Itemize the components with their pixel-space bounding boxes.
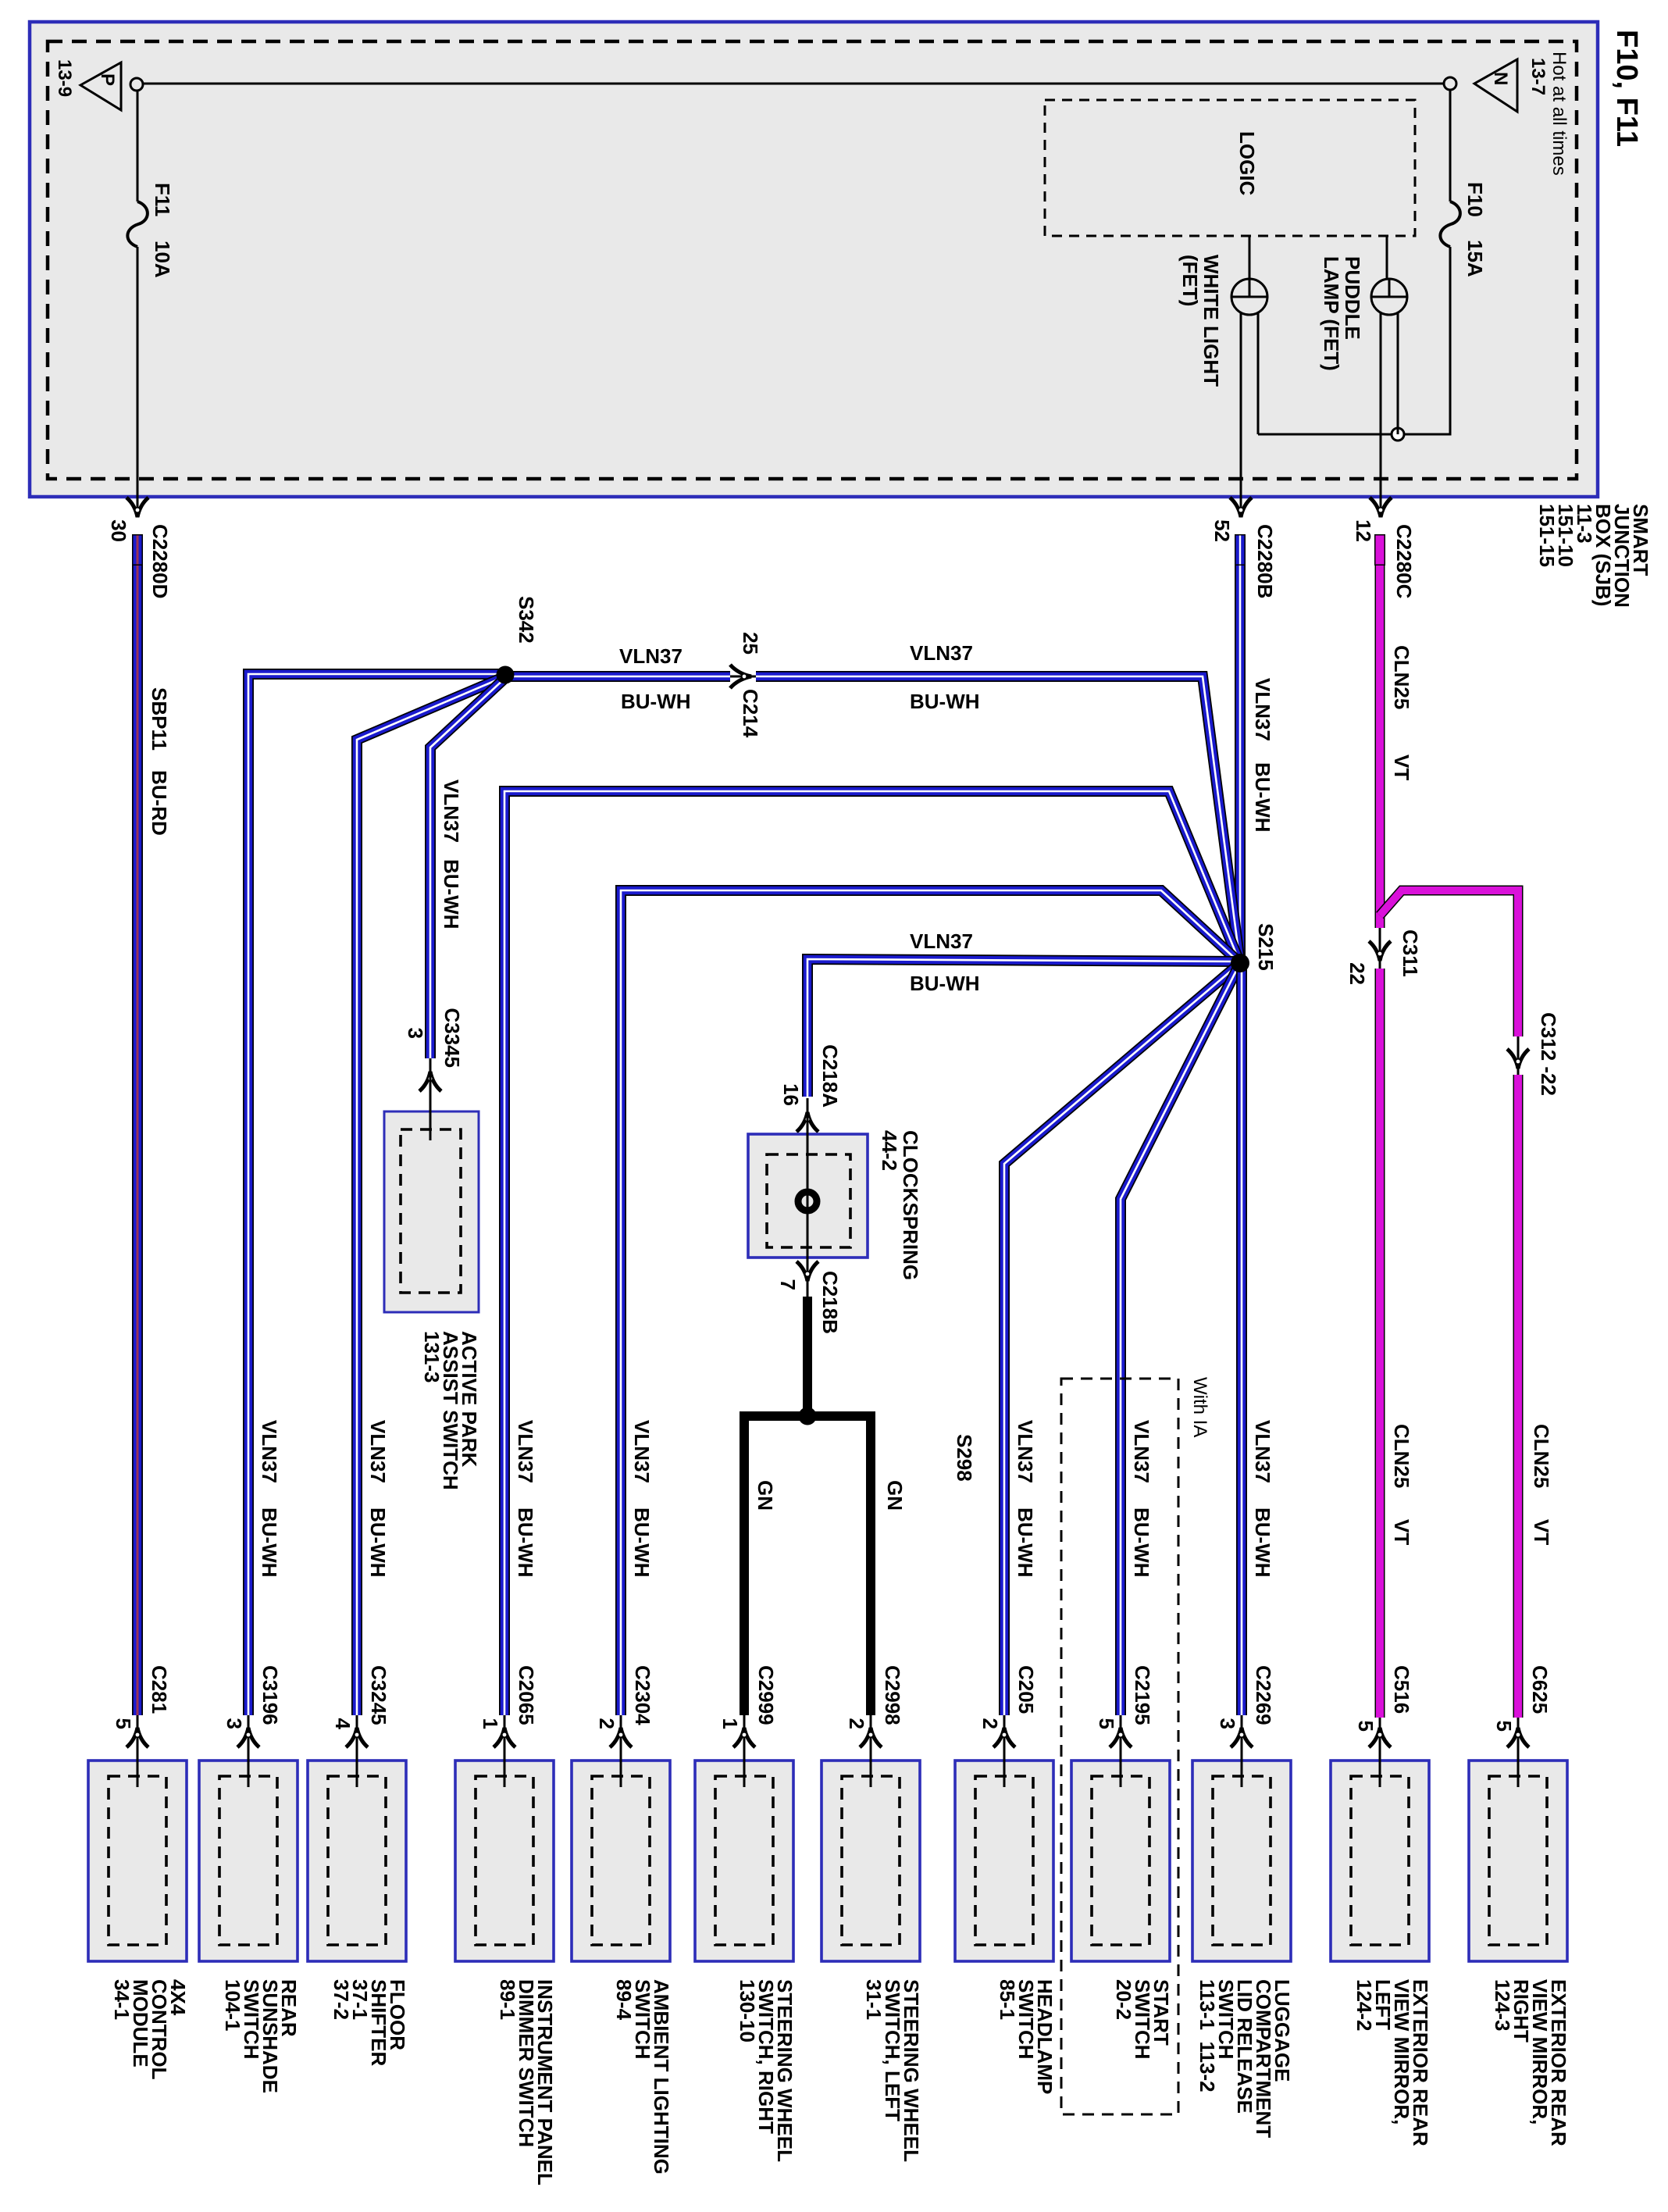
svg-text:VLN37: VLN37 <box>1014 1420 1037 1483</box>
connector arrow C3196 <box>237 1728 259 1747</box>
connector arrow C3245 <box>346 1728 368 1747</box>
svg-text:16: 16 <box>779 1083 803 1106</box>
wire into component LUGGAGE COMPARTMENT LID RELEASE SWITCH <box>1241 1715 1243 1787</box>
wire into component REAR SUNSHADE SWITCH <box>248 1715 250 1787</box>
wire GN S298 to C2998 <box>807 1416 871 1715</box>
svg-text:89-4: 89-4 <box>612 1979 636 2021</box>
wire into component START SWITCH <box>1120 1715 1122 1787</box>
svg-text:C214: C214 <box>739 689 762 738</box>
power triangle P <box>80 62 121 110</box>
svg-text:C3245: C3245 <box>367 1665 390 1725</box>
component START SWITCH <box>1071 1761 1170 1961</box>
svg-text:C3345: C3345 <box>440 1008 464 1068</box>
svg-text:PUDDLE: PUDDLE <box>1341 256 1364 340</box>
svg-text:C2280C: C2280C <box>1392 524 1416 599</box>
svg-text:C2280B: C2280B <box>1253 524 1277 598</box>
svg-text:34-1: 34-1 <box>110 1979 134 2020</box>
connector C2280B bar <box>1235 534 1246 565</box>
wire VLN37 S215 to C2269 <box>1236 963 1247 1715</box>
svg-text:10A: 10A <box>151 241 174 278</box>
svg-text:3: 3 <box>404 1028 427 1039</box>
svg-text:20-2: 20-2 <box>1112 1979 1135 2020</box>
svg-text:BU-WH: BU-WH <box>258 1507 281 1578</box>
svg-text:4: 4 <box>331 1718 355 1730</box>
wire into component EXTERIOR REAR VIEW MIRROR RIGHT <box>1517 1718 1520 1787</box>
wire VLN37 S215 to C2304 <box>621 890 1240 1715</box>
connector arrow C205 <box>993 1728 1015 1747</box>
svg-text:F10: F10 <box>1463 182 1487 217</box>
svg-text:44-2: 44-2 <box>878 1130 901 1171</box>
svg-text:With IA: With IA <box>1189 1377 1210 1437</box>
wire GN C218B to S298 <box>803 1297 812 1416</box>
wire VLN37 S215 to C218A <box>807 959 1240 1097</box>
svg-text:BU-RD: BU-RD <box>148 770 171 836</box>
svg-text:WHITE LIGHT: WHITE LIGHT <box>1199 255 1223 387</box>
svg-text:37-2: 37-2 <box>330 1979 353 2020</box>
SJB inner dashed border <box>48 41 1577 479</box>
svg-text:VLN37: VLN37 <box>630 1420 654 1483</box>
wire fuse F10 to lamp supply bus <box>1258 247 1450 434</box>
svg-text:104-1: 104-1 <box>221 1979 244 2032</box>
wire into component HEADLAMP SWITCH <box>1003 1715 1006 1787</box>
wire VLN37 S342 to C3345 <box>430 678 505 1058</box>
svg-text:VLN37: VLN37 <box>1251 678 1274 741</box>
connector arrow C2998 <box>860 1728 882 1747</box>
wire GN S298 to C2999 <box>744 1416 807 1715</box>
svg-text:GN: GN <box>754 1480 777 1511</box>
CLOCKSPRING box <box>748 1134 868 1258</box>
wire VLN37 pin52 to S215 <box>1235 565 1246 963</box>
svg-text:(FET): (FET) <box>1178 255 1202 306</box>
svg-text:124-3: 124-3 <box>1491 1979 1514 2032</box>
svg-text:VT: VT <box>1390 1519 1413 1545</box>
svg-text:C2999: C2999 <box>754 1665 778 1725</box>
connector arrow C218A <box>797 1112 818 1132</box>
connector C2280D bar <box>132 534 143 565</box>
svg-text:5: 5 <box>112 1718 135 1729</box>
connector arrow C2195 <box>1110 1728 1132 1747</box>
wire into component EXTERIOR REAR VIEW MIRROR LEFT <box>1379 1718 1381 1787</box>
svg-text:C2195: C2195 <box>1131 1665 1154 1725</box>
LOGIC dashed box <box>1045 100 1415 236</box>
svg-text:3: 3 <box>223 1718 246 1729</box>
svg-text:C3196: C3196 <box>258 1665 282 1725</box>
svg-text:C2304: C2304 <box>631 1665 654 1725</box>
svg-text:N: N <box>1490 72 1511 85</box>
wire white light supply stub <box>1257 312 1260 434</box>
svg-text:VLN37: VLN37 <box>1251 1420 1274 1483</box>
component STEERING WHEEL SWITCH RIGHT <box>695 1761 793 1961</box>
wire stem through C311 gap <box>1379 928 1381 969</box>
svg-text:VLN37: VLN37 <box>258 1420 281 1483</box>
wire SBP11 BU-RD pin30 to C281 <box>132 565 143 1715</box>
component LUGGAGE COMPARTMENT LID RELEASE SWITCH <box>1192 1761 1291 1961</box>
component INSTRUMENT PANEL DIMMER SWITCH <box>455 1761 554 1961</box>
svg-text:C312 -22: C312 -22 <box>1537 1012 1560 1096</box>
svg-text:BU-WH: BU-WH <box>1251 762 1274 833</box>
svg-text:31-1: 31-1 <box>862 1979 886 2020</box>
svg-text:BU-WH: BU-WH <box>1130 1507 1153 1578</box>
component EXTERIOR REAR VIEW MIRROR RIGHT <box>1469 1761 1567 1961</box>
connector arrow C312 <box>1507 1049 1529 1069</box>
With IA dashed option box <box>1061 1379 1178 2114</box>
svg-text:130-10: 130-10 <box>736 1979 759 2043</box>
svg-text:BU-WH: BU-WH <box>910 972 980 995</box>
svg-text:52: 52 <box>1210 519 1234 542</box>
svg-text:BU-WH: BU-WH <box>514 1507 537 1578</box>
wire into component INSTRUMENT PANEL DIMMER SWITCH <box>504 1715 506 1787</box>
wire stem through C312 gap <box>1517 1036 1520 1075</box>
wire into component AMBIENT LIGHTING SWITCH <box>620 1715 622 1787</box>
svg-text:VLN37: VLN37 <box>619 644 683 668</box>
svg-text:C2065: C2065 <box>515 1665 538 1725</box>
wire VLN37 S342 to C3196 <box>248 674 505 1715</box>
connector arrow C2999 <box>733 1728 755 1747</box>
svg-text:S298: S298 <box>953 1434 976 1482</box>
svg-text:CLN25: CLN25 <box>1390 1424 1413 1488</box>
wire LOGIC to white light lamp <box>1249 236 1251 298</box>
svg-text:CLN25: CLN25 <box>1530 1424 1553 1488</box>
junction S342 <box>497 666 515 684</box>
svg-text:C218B: C218B <box>818 1271 842 1334</box>
svg-text:C2269: C2269 <box>1252 1665 1275 1725</box>
fuse F10 15A <box>1440 202 1460 247</box>
svg-text:BU-WH: BU-WH <box>1014 1507 1037 1578</box>
wire VLN37 S342 to C214 <box>505 671 730 682</box>
svg-text:2: 2 <box>845 1718 868 1729</box>
wire VLN37 S215 to C2065 <box>504 791 1240 1715</box>
component REAR SUNSHADE SWITCH <box>199 1761 298 1961</box>
connector arrow C2065 <box>494 1728 515 1747</box>
svg-text:85-1: 85-1 <box>996 1979 1019 2020</box>
wire LOGIC to puddle lamp <box>1386 236 1388 298</box>
connector arrow C2280B <box>1230 498 1252 517</box>
svg-text:C281: C281 <box>148 1665 171 1714</box>
wire CLN25 VT C312 to C625 <box>1513 1075 1524 1718</box>
wire into component STEERING WHEEL SWITCH RIGHT <box>743 1715 746 1787</box>
ACTIVE PARK ASSIST SWITCH box <box>384 1111 479 1312</box>
svg-text:SBP11: SBP11 <box>148 687 171 751</box>
svg-text:BU-WH: BU-WH <box>910 690 980 713</box>
svg-text:F10, F11: F10, F11 <box>1610 30 1643 147</box>
svg-text:1: 1 <box>479 1718 502 1729</box>
wire through clockspring <box>807 1098 809 1297</box>
svg-text:3: 3 <box>1216 1718 1239 1729</box>
svg-text:30: 30 <box>107 519 130 542</box>
component AMBIENT LIGHTING SWITCH <box>572 1761 670 1961</box>
wire CLN25 VT branch to C312 <box>1380 890 1518 1036</box>
wire N circle to fuse F10 <box>1449 90 1452 202</box>
wire VLN37 S215 to C205 <box>1004 963 1240 1715</box>
wire puddle lamp supply stub <box>1397 312 1399 434</box>
svg-text:1: 1 <box>718 1718 742 1729</box>
junction S215 <box>1231 954 1249 972</box>
wire P circle to fuse F11 <box>137 90 139 202</box>
connector arrow C281 <box>127 1728 148 1747</box>
junction circle at P triangle <box>130 78 143 91</box>
svg-text:BU-WH: BU-WH <box>440 859 463 929</box>
svg-text:BU-WH: BU-WH <box>366 1507 390 1578</box>
connector arrow C2304 <box>610 1728 632 1747</box>
wire puddle lamp output to pin 12 <box>1380 312 1382 509</box>
svg-text:C311: C311 <box>1399 929 1422 977</box>
svg-text:22: 22 <box>1345 962 1369 985</box>
svg-text:F11: F11 <box>151 183 174 216</box>
svg-text:5: 5 <box>1354 1721 1378 1732</box>
wire into component STEERING WHEEL SWITCH LEFT <box>870 1715 872 1787</box>
power triangle N <box>1474 59 1517 112</box>
svg-text:C516: C516 <box>1390 1665 1413 1714</box>
svg-text:C2280D: C2280D <box>148 524 172 598</box>
svg-text:BU-WH: BU-WH <box>630 1507 654 1578</box>
wire VLN37 S215 to C2195 <box>1121 963 1240 1715</box>
wire VLN37 S342 to C3245 <box>357 676 505 1715</box>
svg-text:7: 7 <box>776 1279 800 1290</box>
hot feed bus wire inside SJB <box>141 83 1445 85</box>
wire fuse F11 to pin 30 <box>137 247 139 509</box>
connector arrow C2269 <box>1231 1728 1253 1747</box>
svg-text:13-9: 13-9 <box>54 59 75 97</box>
junction circle on supply bus at puddle lamp <box>1392 428 1404 441</box>
svg-text:124-2: 124-2 <box>1353 1979 1376 2032</box>
connector arrow C2280D <box>127 498 148 517</box>
component FLOOR SHIFTER <box>308 1761 406 1961</box>
svg-text:VLN37: VLN37 <box>440 780 463 843</box>
wire VLN37 C214 to S215 <box>756 676 1240 963</box>
svg-text:151-15: 151-15 <box>1535 504 1559 567</box>
connector arrow C218B <box>797 1261 818 1281</box>
component HEADLAMP SWITCH <box>955 1761 1053 1961</box>
svg-text:12: 12 <box>1352 519 1375 542</box>
component EXTERIOR REAR VIEW MIRROR LEFT <box>1331 1761 1429 1961</box>
wire into component 4X4 CONTROL MODULE <box>137 1715 139 1787</box>
wire into component FLOOR SHIFTER <box>356 1715 358 1787</box>
svg-text:LOGIC: LOGIC <box>1235 131 1259 196</box>
svg-text:VLN37: VLN37 <box>910 641 973 665</box>
svg-text:CLOCKSPRING: CLOCKSPRING <box>899 1130 922 1280</box>
wire into active park box <box>429 1058 432 1140</box>
connector arrow C311 <box>1369 941 1391 961</box>
svg-text:13-7: 13-7 <box>1527 58 1549 95</box>
svg-text:GN: GN <box>883 1480 907 1511</box>
svg-text:Hot at all times: Hot at all times <box>1549 52 1570 176</box>
svg-text:S342: S342 <box>515 596 538 644</box>
svg-text:131-3: 131-3 <box>420 1331 444 1383</box>
svg-text:VLN37: VLN37 <box>910 929 973 953</box>
svg-text:2: 2 <box>978 1718 1002 1729</box>
svg-text:VLN37: VLN37 <box>1130 1420 1153 1483</box>
component 4X4 CONTROL MODULE <box>88 1761 187 1961</box>
svg-text:15A: 15A <box>1463 240 1487 277</box>
clockspring coil symbol <box>798 1192 817 1211</box>
wire CLN25 VT C2280C to C311 <box>1375 565 1385 928</box>
connector arrow C214 <box>730 665 751 688</box>
svg-text:C205: C205 <box>1014 1665 1038 1714</box>
connector arrow C516 <box>1369 1728 1391 1747</box>
svg-text:C625: C625 <box>1528 1665 1552 1714</box>
svg-text:C218A: C218A <box>818 1044 842 1108</box>
svg-text:BU-WH: BU-WH <box>1251 1507 1274 1578</box>
svg-text:VT: VT <box>1390 755 1413 780</box>
junction circle at N triangle <box>1444 77 1456 90</box>
wire stem through C214 gap <box>730 676 756 678</box>
svg-text:BU-WH: BU-WH <box>621 690 691 713</box>
svg-text:5: 5 <box>1492 1721 1516 1732</box>
wire white light output to pin 52 <box>1240 312 1242 509</box>
svg-text:VLN37: VLN37 <box>514 1420 537 1483</box>
svg-text:S215: S215 <box>1254 923 1278 971</box>
svg-text:113-1 113-2: 113-1 113-2 <box>1196 1979 1219 2092</box>
junction S298 <box>799 1407 817 1425</box>
svg-text:2: 2 <box>595 1718 618 1729</box>
svg-text:CLN25: CLN25 <box>1390 645 1413 709</box>
fuse F11 10A <box>127 202 148 247</box>
connector arrow C625 <box>1507 1728 1529 1747</box>
Smart Junction Box (SJB) outer box <box>30 22 1598 497</box>
wire CLN25 VT C311 to C516 <box>1375 969 1385 1718</box>
svg-text:P: P <box>97 73 118 86</box>
svg-text:LAMP (FET): LAMP (FET) <box>1320 256 1343 371</box>
svg-text:VLN37: VLN37 <box>366 1420 390 1483</box>
component STEERING WHEEL SWITCH LEFT <box>822 1761 920 1961</box>
svg-text:C2998: C2998 <box>881 1665 904 1725</box>
connector C2280C bar <box>1374 534 1385 565</box>
svg-text:VT: VT <box>1530 1519 1553 1545</box>
connector arrow C2280C <box>1370 498 1392 517</box>
svg-text:5: 5 <box>1095 1718 1118 1729</box>
svg-text:25: 25 <box>739 632 762 655</box>
svg-text:89-1: 89-1 <box>496 1979 519 2020</box>
connector arrow C3345 <box>419 1072 441 1091</box>
